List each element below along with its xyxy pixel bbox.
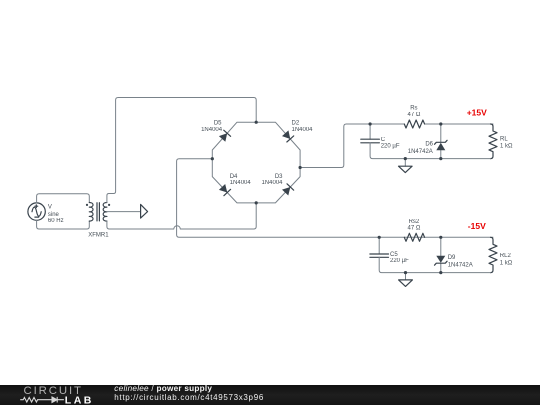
junction Rs2-D9 node	[439, 236, 442, 239]
label RL2	[500, 253, 513, 266]
svg-text:XFMR1: XFMR1	[88, 233, 109, 239]
wire bridge left to minus feed	[177, 159, 493, 238]
svg-text:+15V: +15V	[467, 107, 487, 117]
wire source top loop	[37, 194, 90, 203]
diode D2	[282, 130, 294, 142]
junction bridge left node	[211, 157, 214, 160]
junction C5 top	[378, 236, 381, 239]
svg-text:D4: D4	[230, 174, 238, 180]
wire bridge right to plus rail	[300, 124, 404, 168]
svg-text:RL: RL	[500, 136, 508, 142]
resistor RL2	[489, 237, 497, 272]
wire top: xfmr to bridge top	[107, 98, 256, 203]
zener D6	[435, 124, 448, 159]
svg-text:C: C	[381, 137, 386, 143]
transformer XFMR1	[86, 203, 110, 222]
junction Rs-D6 node	[439, 122, 442, 125]
label D3	[261, 174, 283, 186]
svg-text:D5: D5	[214, 120, 222, 126]
zener D9	[435, 237, 448, 272]
label D4	[230, 174, 252, 186]
diode D3	[282, 184, 294, 196]
svg-text:D6: D6	[425, 141, 433, 147]
junction ground top branch	[404, 157, 407, 160]
svg-text:1N4742A: 1N4742A	[448, 262, 473, 268]
label C5	[390, 252, 409, 264]
svg-text:Rs2: Rs2	[409, 219, 420, 225]
svg-text:60 Hz: 60 Hz	[48, 218, 64, 224]
diode D4	[219, 184, 231, 196]
center tap flag	[107, 204, 148, 218]
svg-text:C5: C5	[390, 252, 398, 258]
resistor Rs2	[404, 233, 424, 241]
diode D5	[219, 130, 231, 142]
junction C top	[369, 122, 372, 125]
label C	[381, 137, 400, 149]
svg-text:D9: D9	[448, 255, 456, 261]
svg-text:LAB: LAB	[65, 394, 94, 405]
svg-text:1N4742A: 1N4742A	[408, 149, 433, 155]
junction bridge right node	[299, 166, 302, 169]
svg-text:1N4004: 1N4004	[230, 180, 252, 186]
voltage source V1 circle	[28, 203, 45, 220]
label V sine 60 Hz	[48, 205, 64, 225]
label D9	[448, 255, 473, 269]
svg-text:V: V	[48, 205, 52, 211]
footer bar	[0, 385, 540, 405]
svg-text:-15V: -15V	[468, 221, 486, 231]
label D6	[408, 141, 434, 154]
svg-text:celinelee / power supply: celinelee / power supply	[114, 384, 212, 393]
svg-text:http://circuitlab.com/c4t49573: http://circuitlab.com/c4t49573x3p96	[114, 393, 264, 402]
junction ground bottom branch	[404, 271, 407, 274]
junction D9 bottom	[439, 271, 442, 274]
junction bridge bottom node	[255, 201, 258, 204]
svg-text:D2: D2	[292, 120, 300, 126]
label Rs	[407, 106, 420, 119]
svg-text:1N4004: 1N4004	[201, 127, 223, 133]
ground bottom branch	[399, 273, 413, 287]
junction bridge top node	[255, 121, 258, 124]
junction D6 bottom	[439, 157, 442, 160]
svg-text:sine: sine	[48, 212, 60, 218]
label D2	[292, 120, 314, 133]
label D5	[201, 120, 223, 133]
wire bridge bottom AC with hop	[107, 203, 256, 229]
svg-text:47 Ω: 47 Ω	[407, 112, 420, 118]
svg-text:RL2: RL2	[500, 253, 512, 259]
label Rs2	[407, 219, 420, 232]
svg-text:220 µF: 220 µF	[381, 143, 400, 149]
bridge octagon	[212, 122, 300, 203]
svg-text:Rs: Rs	[410, 106, 417, 112]
svg-text:1N4004: 1N4004	[261, 180, 283, 186]
ground top branch	[399, 159, 413, 173]
resistor RL	[489, 124, 497, 159]
wire plus rail right of Rs	[425, 123, 493, 125]
bottom rail top branch	[370, 143, 490, 159]
svg-text:1N4004: 1N4004	[292, 127, 314, 133]
wire source bottom loop	[37, 220, 90, 229]
resistor Rs	[404, 120, 424, 128]
svg-text:220 µF: 220 µF	[390, 258, 409, 264]
capacitor C	[361, 124, 380, 143]
bottom rail bottom branch	[379, 257, 490, 272]
logo schematic line with resistor and diode	[20, 397, 64, 403]
capacitor C5	[370, 237, 389, 257]
svg-text:47 Ω: 47 Ω	[407, 226, 420, 232]
svg-text:D3: D3	[275, 174, 283, 180]
svg-text:1 kΩ: 1 kΩ	[500, 260, 513, 266]
label RL	[500, 136, 513, 149]
svg-text:1 kΩ: 1 kΩ	[500, 144, 513, 150]
